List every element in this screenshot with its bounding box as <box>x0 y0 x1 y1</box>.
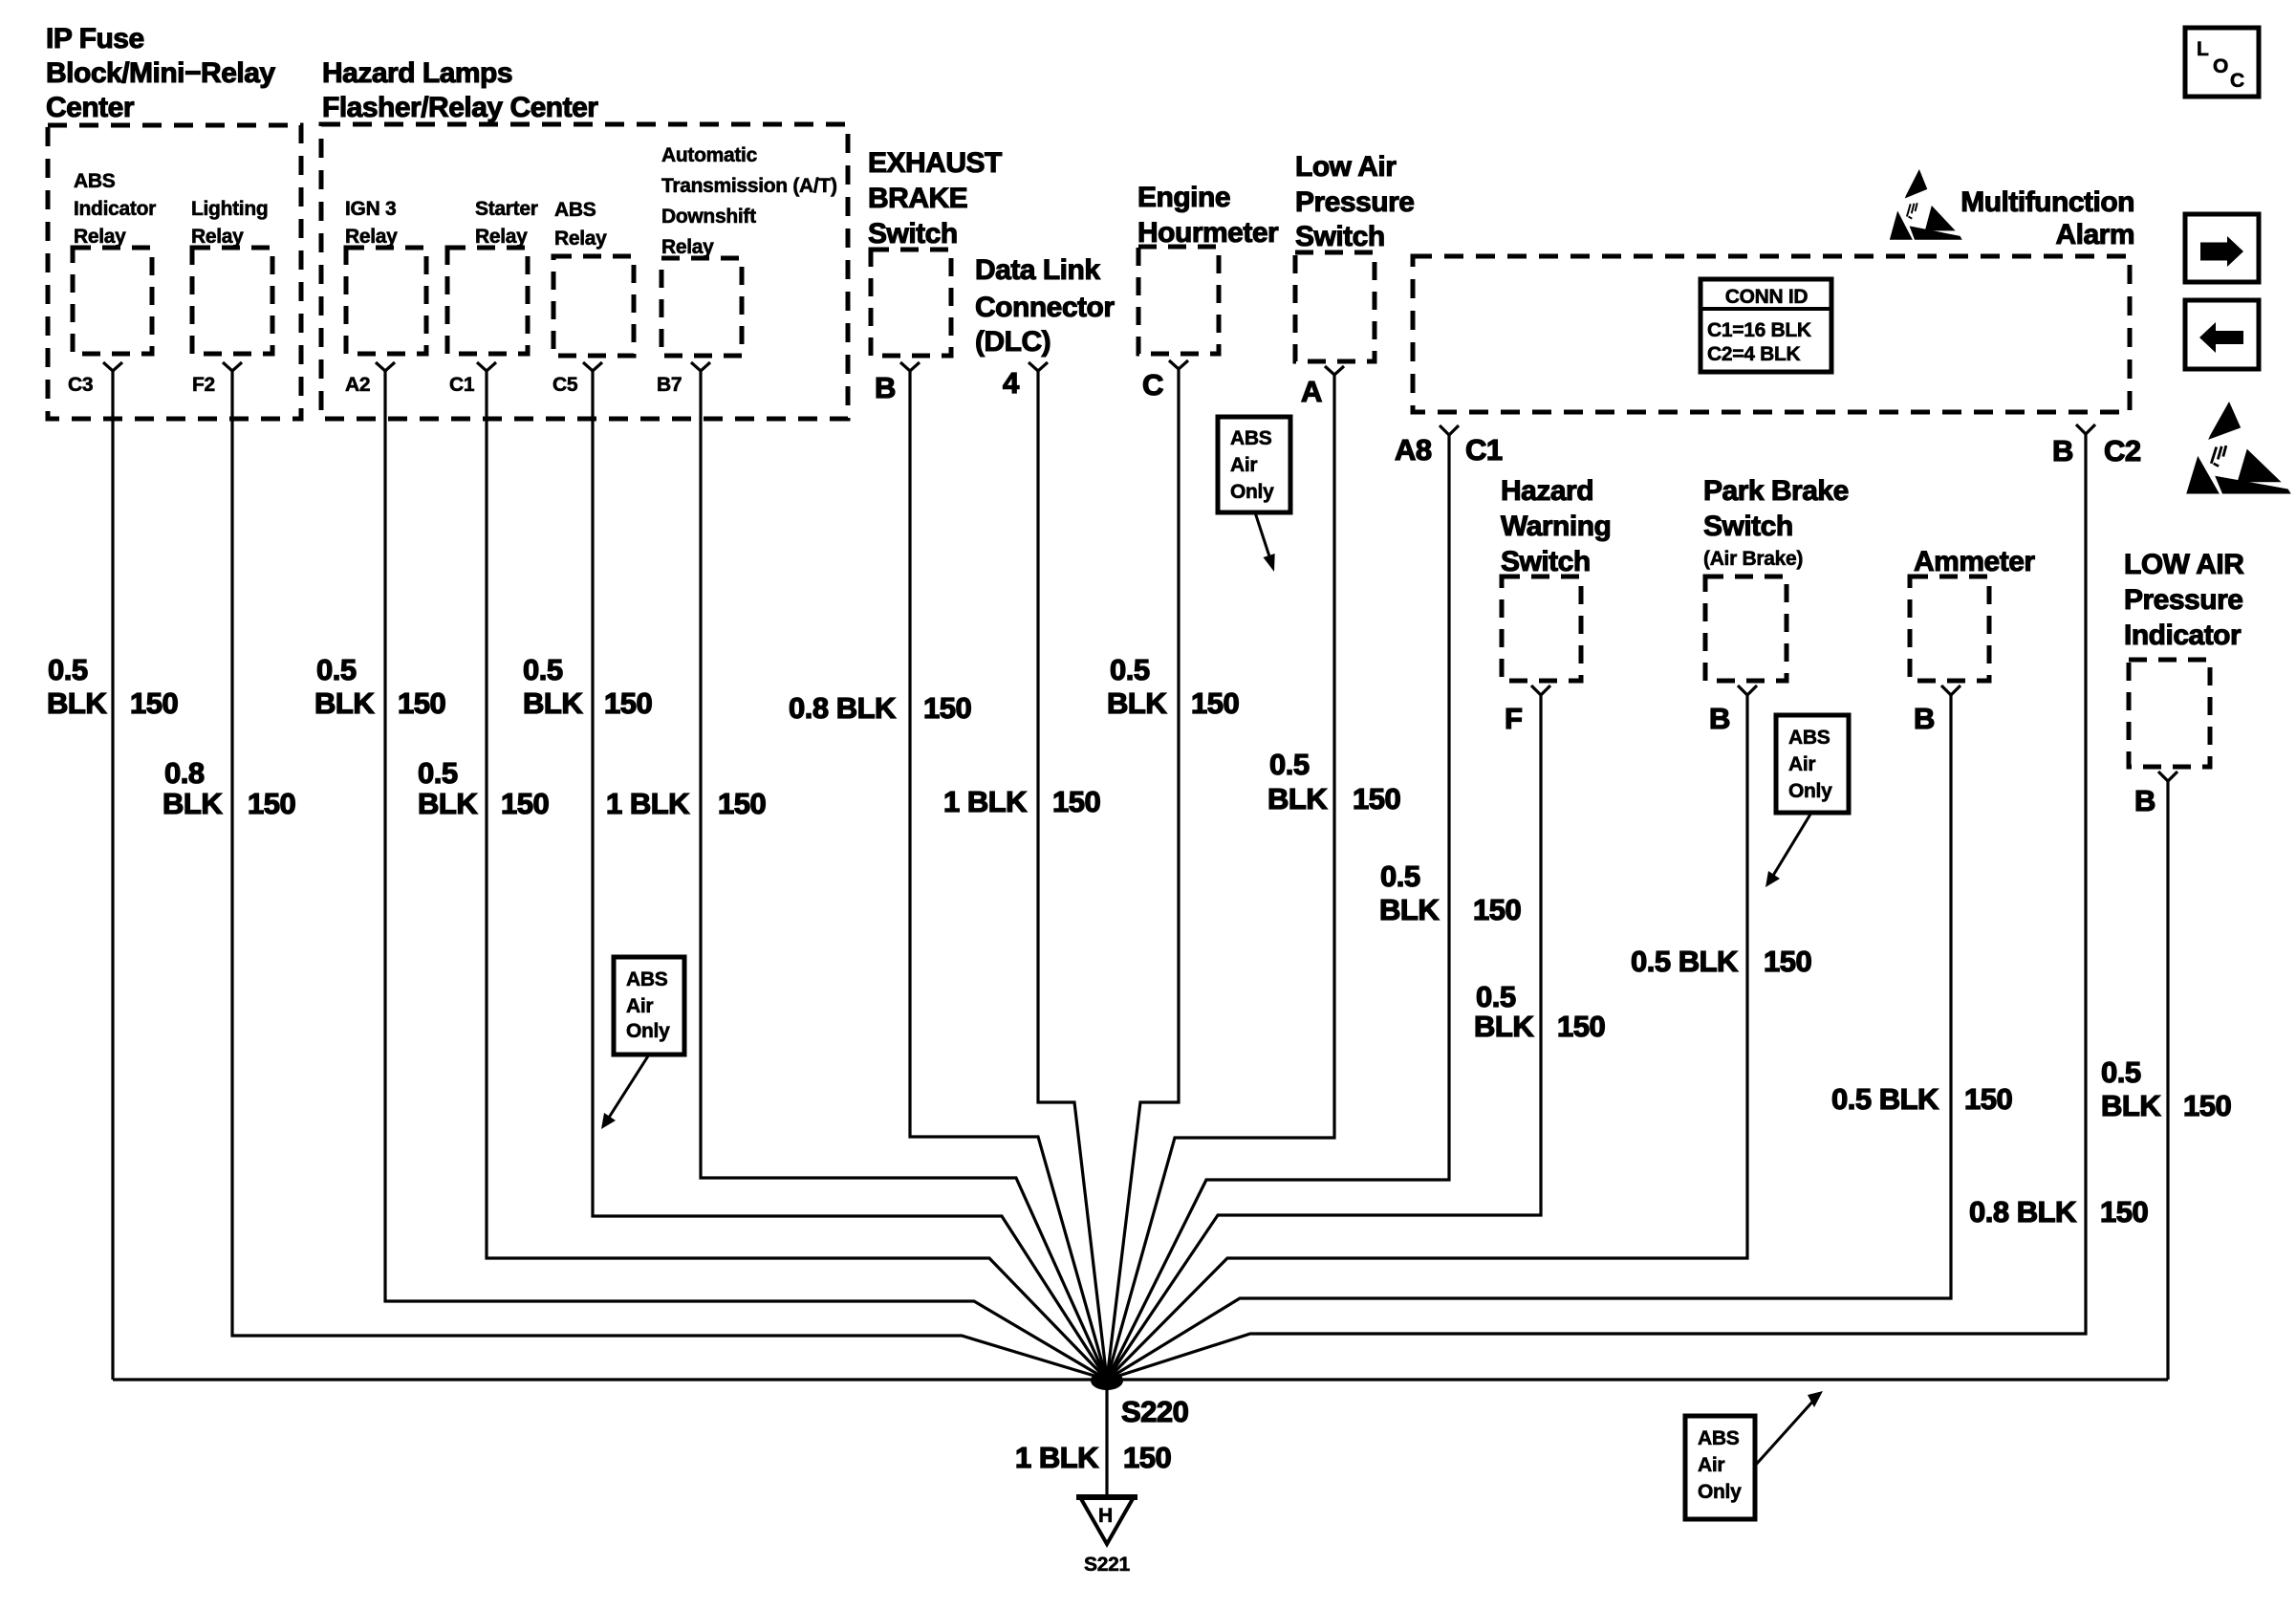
svg-text:Starter: Starter <box>475 198 538 220</box>
svg-text:Center: Center <box>46 92 135 123</box>
svg-text:150: 150 <box>1557 1010 1605 1043</box>
svg-text:0.8 BLK: 0.8 BLK <box>1969 1195 2077 1229</box>
svg-text:Alarm: Alarm <box>2055 219 2134 250</box>
svg-text:Only: Only <box>1698 1481 1742 1503</box>
svg-text:0.5: 0.5 <box>1269 748 1310 781</box>
wire hazard F to S220 <box>1107 695 1541 1380</box>
svg-text:Transmission (A/T): Transmission (A/T) <box>661 175 837 197</box>
pin C fork (engine) <box>1169 360 1188 369</box>
svg-text:ABS: ABS <box>74 170 116 192</box>
ABS Air Only note (park brake area) <box>1765 715 1849 887</box>
svg-text:Relay: Relay <box>345 226 398 248</box>
svg-text:LOW AIR: LOW AIR <box>2124 549 2244 580</box>
svg-text:Indicator: Indicator <box>2124 620 2242 651</box>
svg-text:Warning: Warning <box>1501 511 1611 542</box>
svg-text:BLK: BLK <box>1474 1010 1534 1043</box>
svg-text:Low Air: Low Air <box>1295 151 1397 183</box>
svg-text:C5: C5 <box>552 374 578 396</box>
ABS Air Only note (bottom right) <box>1685 1391 1823 1519</box>
svg-text:1 BLK: 1 BLK <box>606 787 690 820</box>
svg-text:150: 150 <box>1964 1082 2012 1116</box>
svg-text:L: L <box>2197 38 2209 60</box>
wire park brake B to S220 <box>1107 695 1747 1380</box>
svg-text:(Air Brake): (Air Brake) <box>1703 548 1803 570</box>
svg-text:0.5: 0.5 <box>2101 1055 2141 1089</box>
wire label 0.8 BLK 150 (exhaust) <box>789 691 971 725</box>
svg-text:C: C <box>2230 70 2244 92</box>
Starter Relay <box>447 198 538 354</box>
svg-text:C3: C3 <box>68 374 93 396</box>
svg-text:Switch: Switch <box>868 218 958 250</box>
Multifunction Alarm label <box>1960 186 2134 250</box>
pin C3 fork <box>103 362 122 371</box>
wire label 0.5 BLK 150 (A2) <box>314 653 445 720</box>
svg-text:150: 150 <box>1123 1441 1171 1474</box>
svg-text:Engine: Engine <box>1137 182 1230 213</box>
svg-text:Relay: Relay <box>554 228 607 250</box>
Hazard Warning Switch <box>1501 475 1611 681</box>
wire label 1 BLK 150 (S220-S221) <box>1015 1441 1171 1474</box>
wire low air indicator B to S220 <box>2166 781 2169 1380</box>
svg-text:B: B <box>1914 702 1935 735</box>
svg-text:Air: Air <box>1788 753 1815 775</box>
pin 4 fork (DLC) <box>1029 362 1048 371</box>
wire engine C to S220 <box>1107 369 1179 1380</box>
Ammeter <box>1910 546 2035 681</box>
Data Link Connector (DLC) label <box>975 254 1115 358</box>
svg-text:0.5: 0.5 <box>316 653 357 686</box>
svg-text:C: C <box>1142 368 1163 402</box>
svg-text:0.5: 0.5 <box>1476 980 1516 1013</box>
ground symbol S221 (triangle H) <box>1076 1497 1137 1544</box>
svg-text:150: 150 <box>1191 686 1239 720</box>
svg-text:Switch: Switch <box>1295 221 1385 252</box>
svg-text:EXHAUST: EXHAUST <box>868 147 1002 179</box>
pin F2 fork <box>223 362 242 371</box>
wire label 0.8 BLK 150 (F2) <box>162 756 295 820</box>
wire label 0.5 BLK 150 (C5) <box>523 653 652 720</box>
svg-text:150: 150 <box>604 686 652 720</box>
pin F fork <box>1531 685 1550 695</box>
ESD symbol top <box>1890 169 1962 240</box>
svg-text:Connector: Connector <box>975 292 1115 323</box>
wire label 0.5 BLK 150 (low air A) <box>1267 748 1400 816</box>
wire label 0.5 BLK 150 (park brake) <box>1631 945 1811 978</box>
svg-text:B: B <box>2134 784 2155 817</box>
Low Air Pressure Switch <box>1295 151 1414 361</box>
wire label 0.5 BLK 150 (low air indicator) <box>2101 1055 2231 1122</box>
svg-text:Data Link: Data Link <box>975 254 1100 286</box>
wire ammeter B to S220 <box>1107 695 1951 1380</box>
svg-text:S221: S221 <box>1084 1554 1130 1576</box>
svg-text:150: 150 <box>1473 893 1521 926</box>
wire A2 to S220 <box>385 371 1107 1380</box>
svg-text:Only: Only <box>1230 481 1274 503</box>
svg-text:150: 150 <box>1052 785 1100 818</box>
svg-text:0.8 BLK: 0.8 BLK <box>789 691 897 725</box>
wire F2 to S220 <box>232 371 1107 1380</box>
Hazard Lamps Flasher/Relay Center label <box>322 57 598 123</box>
svg-text:Switch: Switch <box>1703 511 1793 542</box>
wire low air A to S220 <box>1107 375 1334 1380</box>
svg-text:Relay: Relay <box>74 226 126 248</box>
EXHAUST BRAKE Switch <box>868 147 1002 356</box>
svg-text:B: B <box>2052 434 2073 468</box>
wire C3 to S220 <box>111 371 114 1380</box>
svg-text:C2=4 BLK: C2=4 BLK <box>1707 343 1801 365</box>
pin B fork (park brake) <box>1738 685 1757 695</box>
svg-text:150: 150 <box>2100 1195 2148 1229</box>
svg-text:IGN 3: IGN 3 <box>345 198 396 220</box>
svg-text:BLK: BLK <box>523 686 583 720</box>
wire label 0.5 BLK 150 (ammeter) <box>1831 1082 2012 1116</box>
svg-text:A: A <box>1301 375 1322 408</box>
svg-text:150: 150 <box>130 686 178 720</box>
svg-text:Multifunction: Multifunction <box>1960 186 2134 218</box>
Engine Hourmeter <box>1137 182 1279 354</box>
svg-text:Relay: Relay <box>191 226 244 248</box>
ESD symbol bottom right <box>2186 402 2291 493</box>
svg-text:F: F <box>1505 702 1522 735</box>
wire A8/C1 to S220 <box>1107 435 1449 1380</box>
svg-text:Flasher/Relay Center: Flasher/Relay Center <box>322 92 598 123</box>
ABS Indicator Relay <box>73 170 156 354</box>
ABS Relay <box>553 199 634 356</box>
pin A fork (low air switch) <box>1325 366 1344 375</box>
svg-text:Only: Only <box>1788 780 1832 802</box>
pin C1 fork <box>477 362 496 371</box>
svg-text:ABS: ABS <box>1698 1427 1740 1449</box>
pin A2 fork <box>376 362 395 371</box>
Park Brake Switch (Air Brake) <box>1703 475 1849 681</box>
svg-text:(DLC): (DLC) <box>975 326 1051 358</box>
svg-text:B: B <box>875 371 896 404</box>
svg-text:Pressure: Pressure <box>2124 584 2242 616</box>
svg-text:IP Fuse: IP Fuse <box>46 23 144 54</box>
wire C1 to S220 <box>487 371 1107 1380</box>
IGN 3 Relay <box>345 198 426 354</box>
svg-text:Lighting: Lighting <box>191 198 268 220</box>
svg-text:0.5: 0.5 <box>1380 859 1420 893</box>
wire label 0.5 BLK 150 (engine) <box>1107 653 1239 720</box>
svg-text:Indicator: Indicator <box>74 198 156 220</box>
ABS Air Only note (C5 area) <box>601 957 684 1129</box>
pin A8/C1 fork (multifunction C1) <box>1440 425 1459 435</box>
wire exhaust B to S220 <box>910 371 1107 1380</box>
splice S220 <box>1091 1371 1123 1390</box>
pin B7 fork <box>691 362 710 371</box>
svg-text:Hazard Lamps: Hazard Lamps <box>322 57 512 89</box>
svg-text:BLK: BLK <box>314 686 375 720</box>
svg-text:C1: C1 <box>1465 433 1503 467</box>
IP Fuse Block/Mini-Relay Center box <box>48 125 301 419</box>
svg-text:Air: Air <box>1230 454 1257 476</box>
svg-text:Air: Air <box>626 995 653 1017</box>
wire label 0.5 BLK 150 (hazard F) <box>1474 980 1605 1043</box>
svg-text:150: 150 <box>501 787 549 820</box>
svg-text:150: 150 <box>248 787 295 820</box>
wire C5 to S220 <box>593 371 1107 1380</box>
svg-text:150: 150 <box>398 686 445 720</box>
svg-text:ABS: ABS <box>626 968 668 990</box>
left arrow box <box>2185 300 2259 369</box>
svg-text:0.5: 0.5 <box>1110 653 1150 686</box>
svg-text:Hazard: Hazard <box>1501 475 1593 507</box>
svg-text:1 BLK: 1 BLK <box>943 785 1028 818</box>
Automatic Transmission (A/T) Downshift Relay <box>661 144 837 356</box>
svg-text:Block/Mini−Relay: Block/Mini−Relay <box>46 57 275 89</box>
svg-text:150: 150 <box>1764 945 1811 978</box>
svg-text:F2: F2 <box>192 374 215 396</box>
wire label 1 BLK 150 (DLC) <box>943 785 1100 818</box>
wire S220 to S221 <box>1105 1380 1108 1497</box>
wire bottom bus <box>113 1378 2168 1381</box>
svg-text:Ammeter: Ammeter <box>1914 546 2035 577</box>
svg-text:BLK: BLK <box>1107 686 1167 720</box>
wire multifunction C2 to S220 <box>1107 434 2086 1380</box>
svg-text:BLK: BLK <box>1379 893 1440 926</box>
pin B fork (exhaust) <box>900 362 920 371</box>
pin B/C2 fork (multifunction C2) <box>2076 424 2095 434</box>
svg-text:A8: A8 <box>1395 433 1432 467</box>
svg-text:BLK: BLK <box>47 686 107 720</box>
wire label 0.5 BLK 150 (C3) <box>47 653 178 720</box>
right arrow box <box>2185 214 2259 282</box>
svg-text:150: 150 <box>2183 1089 2231 1122</box>
svg-text:C1=16 BLK: C1=16 BLK <box>1707 319 1811 341</box>
pin B fork (ammeter) <box>1941 685 1960 695</box>
pin C5 fork <box>583 362 602 371</box>
svg-text:ABS: ABS <box>1230 427 1272 449</box>
wire label 0.5 BLK 150 (C1) <box>418 756 549 820</box>
svg-text:B7: B7 <box>657 374 682 396</box>
LOC box <box>2185 28 2259 97</box>
svg-text:C2: C2 <box>2104 434 2141 468</box>
svg-text:Downshift: Downshift <box>661 206 756 228</box>
svg-text:0.5: 0.5 <box>48 653 88 686</box>
svg-text:H: H <box>1098 1505 1113 1527</box>
svg-text:0.8: 0.8 <box>164 756 205 790</box>
svg-text:Pressure: Pressure <box>1295 186 1414 218</box>
svg-text:BLK: BLK <box>418 787 478 820</box>
svg-text:150: 150 <box>718 787 766 820</box>
Lighting Relay <box>191 198 272 354</box>
svg-text:A2: A2 <box>345 374 370 396</box>
ABS Air Only note (DLC area) <box>1218 417 1290 572</box>
svg-text:Relay: Relay <box>661 236 714 258</box>
pin B fork (low air indicator) <box>2158 772 2177 781</box>
CONN ID table <box>1700 279 1831 372</box>
wire label 0.8 BLK 150 (multifunction C2) <box>1969 1195 2148 1229</box>
Hazard Lamps Flasher/Relay Center box <box>321 124 848 419</box>
svg-text:BLK: BLK <box>1267 782 1328 816</box>
svg-text:1 BLK: 1 BLK <box>1015 1441 1099 1474</box>
wire DLC 4 to S220 <box>1038 371 1107 1380</box>
svg-text:BLK: BLK <box>162 787 223 820</box>
IP Fuse Block/Mini-Relay Center label <box>46 23 275 123</box>
svg-text:Air: Air <box>1698 1454 1724 1476</box>
svg-text:150: 150 <box>923 691 971 725</box>
svg-text:Hourmeter: Hourmeter <box>1137 217 1279 249</box>
svg-text:Only: Only <box>626 1020 670 1042</box>
svg-text:4: 4 <box>1003 366 1020 400</box>
wire label 0.5 BLK 150 (A8/C1) <box>1379 859 1521 926</box>
wire B7 to S220 <box>701 371 1107 1380</box>
svg-text:0.5 BLK: 0.5 BLK <box>1631 945 1739 978</box>
svg-text:Switch: Switch <box>1501 546 1591 577</box>
svg-text:S220: S220 <box>1121 1395 1188 1428</box>
svg-text:Automatic: Automatic <box>661 144 758 166</box>
svg-text:0.5 BLK: 0.5 BLK <box>1831 1082 1939 1116</box>
wire label 1 BLK 150 (B7) <box>606 787 766 820</box>
svg-text:B: B <box>1709 702 1730 735</box>
svg-text:150: 150 <box>1353 782 1400 816</box>
svg-text:ABS: ABS <box>554 199 596 221</box>
svg-text:0.5: 0.5 <box>418 756 458 790</box>
svg-text:ABS: ABS <box>1788 727 1830 749</box>
svg-text:BLK: BLK <box>2101 1089 2161 1122</box>
svg-text:O: O <box>2213 55 2228 77</box>
svg-text:Relay: Relay <box>475 226 528 248</box>
LOW AIR Pressure Indicator <box>2124 549 2244 767</box>
svg-text:BRAKE: BRAKE <box>868 183 967 214</box>
svg-text:C1: C1 <box>449 374 475 396</box>
svg-text:0.5: 0.5 <box>523 653 563 686</box>
svg-text:Park Brake: Park Brake <box>1703 475 1849 507</box>
Multifunction Alarm box <box>1413 256 2130 412</box>
svg-text:CONN ID: CONN ID <box>1725 286 1809 308</box>
